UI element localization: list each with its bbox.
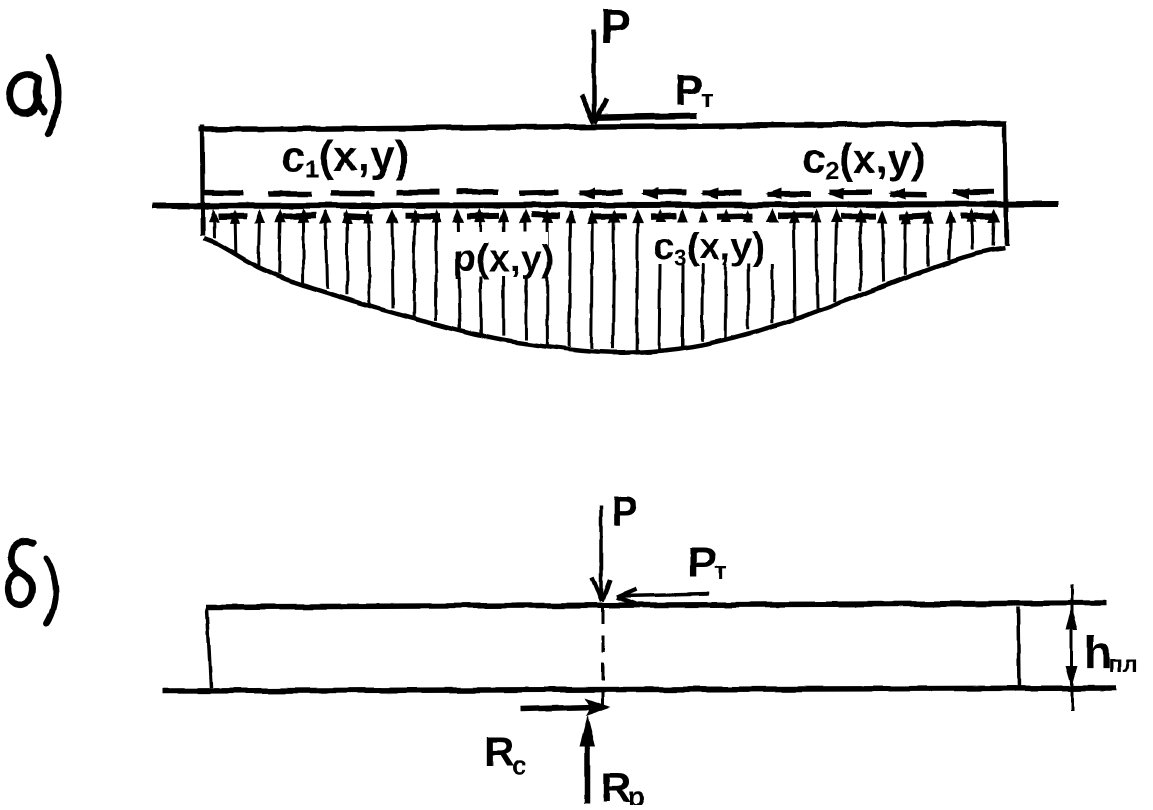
svg-text:т: т [701,83,714,113]
svg-text:c1(x,y): c1(x,y) [281,132,409,183]
svg-text:R: R [601,764,631,805]
svg-text:P: P [687,538,716,587]
svg-text:т: т [714,555,727,585]
svg-text:R: R [484,728,514,775]
svg-text:c3(x,y): c3(x,y) [653,226,765,270]
svg-text:c: c [512,750,526,780]
svg-text:P: P [611,490,638,534]
svg-text:p(x,y): p(x,y) [453,238,554,280]
svg-text:P: P [600,0,631,52]
svg-text:c2(x,y): c2(x,y) [802,135,925,185]
svg-text:пл: пл [1108,651,1138,678]
svg-text:P: P [674,66,703,115]
svg-text:p: p [628,781,645,805]
